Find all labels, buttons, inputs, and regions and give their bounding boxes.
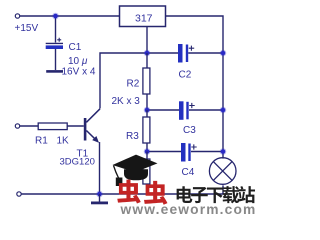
- watermark 虫虫 red: [117, 180, 140, 204]
- node R2-R3 junction: [144, 107, 151, 114]
- node C4 right / lamp top: [220, 148, 227, 155]
- wire R1 to base: [67, 125, 84, 127]
- terminal input left: [15, 124, 19, 128]
- node C2 right: [220, 50, 227, 57]
- svg-text:C4: C4: [182, 167, 195, 178]
- wire top rail: [20, 15, 120, 17]
- resistor R4 (mostly hidden by watermark): [146, 152, 148, 195]
- terminal +15V input: [15, 14, 19, 18]
- regulator U1 317 box: [120, 6, 166, 27]
- wire 317 adj pin down: [146, 27, 148, 54]
- capacitor C1 10u: [57, 38, 61, 42]
- resistor R1 1K: [38, 123, 67, 130]
- svg-text:R2: R2: [127, 79, 140, 90]
- svg-text:317: 317: [135, 12, 153, 24]
- resistor R2: [146, 53, 148, 110]
- wire bottom rail: [21, 193, 223, 195]
- svg-text:10 μ: 10 μ: [68, 56, 88, 67]
- capacitor C3: [179, 101, 184, 120]
- wire C1 branch: [55, 16, 57, 43]
- lamp: [209, 158, 236, 185]
- svg-text:3DG120: 3DG120: [60, 156, 95, 167]
- node emitter-rail junction: [96, 191, 103, 198]
- svg-text:2K x 3: 2K x 3: [112, 96, 141, 107]
- svg-text:C3: C3: [183, 125, 196, 136]
- svg-text:C2: C2: [179, 70, 192, 81]
- svg-text:R1: R1: [35, 136, 48, 147]
- svg-text:R3: R3: [126, 131, 139, 142]
- wire to R1: [20, 125, 38, 127]
- svg-text:1K: 1K: [57, 136, 70, 147]
- node R3-R4 junction: [144, 148, 151, 155]
- watermark 电子下载站: [177, 186, 193, 203]
- capacitor C2: [178, 44, 183, 63]
- terminal bottom left: [17, 192, 21, 196]
- capacitor C4: [181, 143, 186, 162]
- svg-text:C1: C1: [69, 42, 82, 53]
- wire C2 row: [147, 52, 223, 54]
- wire emitter down: [99, 142, 101, 194]
- wire 317 output to right rail: [166, 16, 224, 194]
- svg-text:+15V: +15V: [15, 23, 39, 34]
- node C1 tap: [52, 13, 59, 20]
- wire adj row left to collector riser: [100, 53, 147, 109]
- svg-text:www.eeworm.com: www.eeworm.com: [120, 202, 257, 216]
- node ADJ junction: [144, 50, 151, 57]
- watermark graduation cap: [113, 155, 158, 186]
- wire C3 row: [147, 109, 223, 111]
- ground: [99, 194, 101, 202]
- node C3 right: [220, 107, 227, 114]
- transistor T1 3DG120: [84, 118, 87, 141]
- resistor R3: [146, 110, 148, 152]
- wire C4 row: [147, 151, 223, 153]
- svg-text:16V x 4: 16V x 4: [62, 66, 96, 77]
